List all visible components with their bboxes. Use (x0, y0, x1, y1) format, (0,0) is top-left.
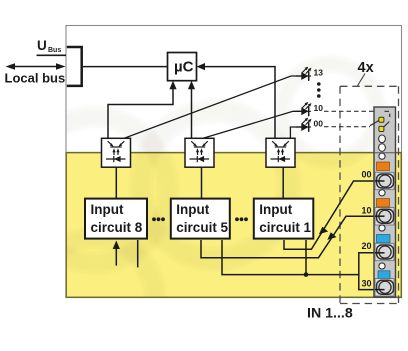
wire: optocoupler3 to LED 00 (290, 127, 301, 138)
optocoupler 1 (102, 138, 131, 167)
svg-text:20: 20 (362, 241, 372, 251)
terminal 30 group (375, 263, 394, 296)
bracket to terminals 20 and 30 (359, 253, 377, 290)
wire input circuit 5 to terminal 10 with arrow (201, 216, 377, 258)
input circuit 5 box (171, 199, 230, 239)
wire input circuit 1 to terminal 00 with arrow (284, 181, 377, 249)
white ellipse 1 (379, 135, 386, 143)
leader line to yellow LED 1 (370, 121, 379, 126)
LED 10 (296, 102, 312, 116)
yellow LED indicator 1 (379, 117, 384, 122)
svg-text:30: 30 (362, 278, 372, 288)
svg-text:Input: Input (259, 202, 292, 217)
wire stub into terminal 20 (375, 252, 385, 254)
strip section lines (374, 153, 396, 259)
4x pointer line (358, 74, 366, 86)
wire input circuit 1 right to common rail (305, 240, 307, 275)
wire: diagonal optocoupler1 to LED 13 (124, 76, 302, 138)
svg-text:00: 00 (314, 119, 324, 129)
svg-text:circuit 1: circuit 1 (259, 220, 311, 235)
svg-text:circuit 5: circuit 5 (176, 220, 228, 235)
uC box (168, 53, 197, 81)
wire optocoupler1 to input circuit 8 (115, 167, 117, 198)
terminal 00 group (375, 153, 394, 190)
outer frame (66, 26, 402, 298)
leader line to yellow LED 2 (384, 122, 389, 127)
svg-text:µC: µC (174, 58, 194, 75)
optocoupler 3 (266, 138, 295, 167)
dashed line LED10 to terminal strip (324, 110, 374, 112)
svg-text:circuit 8: circuit 8 (91, 220, 143, 235)
U Bus underline (37, 54, 67, 56)
LED 13 (296, 67, 312, 81)
wire: uC right L-path from optocoupler 3 with arrow into uC (204, 67, 276, 139)
input circuit 1 box (254, 199, 313, 239)
wire: uC bottom-right arrow from optocoupler 2 (191, 88, 193, 139)
terminal 10 group (375, 190, 394, 225)
common rail from input circuit 5 (222, 240, 359, 275)
wire: bus connector to uC (83, 66, 168, 68)
wire stub into terminal 30 (375, 289, 385, 291)
4x dashed box (340, 86, 399, 303)
yellow peripheral area (66, 153, 401, 298)
dashed line LED00 to terminal strip (324, 126, 370, 128)
svg-text:10: 10 (314, 103, 324, 113)
svg-text:Input: Input (176, 202, 209, 217)
dashed corner inside strip for LED10 leader (385, 111, 390, 117)
wire: uC bottom-left arrow from optocoupler 1 (108, 88, 173, 139)
svg-text:IN 1...8: IN 1...8 (307, 306, 353, 322)
optocoupler 2 (185, 138, 214, 167)
wire optocoupler2 to input circuit 5 (201, 167, 203, 198)
svg-text:Local bus: Local bus (5, 71, 66, 86)
input circuit 8 box (85, 199, 147, 239)
wire stub into terminal 00 (375, 180, 385, 182)
watermark swirl (22, 64, 378, 351)
svg-text:10: 10 (362, 205, 372, 215)
vertical dots (317, 82, 321, 98)
svg-text:13: 13 (314, 68, 324, 78)
svg-text:Input: Input (91, 202, 124, 217)
wire stub into terminal 10 (375, 215, 385, 217)
wire optocoupler3 to input circuit 1 (282, 167, 284, 198)
dots between box 5 and 1 (235, 217, 248, 221)
svg-text:4x: 4x (358, 60, 374, 76)
junction (304, 272, 309, 277)
terminal 20 group (375, 225, 394, 261)
wire from input circuit 8 bottom (137, 240, 139, 267)
arrow into input circuit 8 bottom (115, 246, 117, 266)
yellow LED indicator 2 (379, 126, 384, 131)
terminal strip body (374, 107, 396, 297)
LED 00 (296, 118, 312, 132)
svg-text:U: U (37, 38, 47, 53)
white ellipse 2 (379, 144, 386, 152)
bus connector (67, 46, 82, 86)
dots between box 8 and 5 (152, 217, 165, 221)
svg-text:00: 00 (362, 170, 372, 180)
local bus double arrow (6, 63, 66, 70)
svg-text:Bus: Bus (48, 47, 61, 54)
wire: diagonal optocoupler2 to LED 10 (203, 111, 302, 138)
